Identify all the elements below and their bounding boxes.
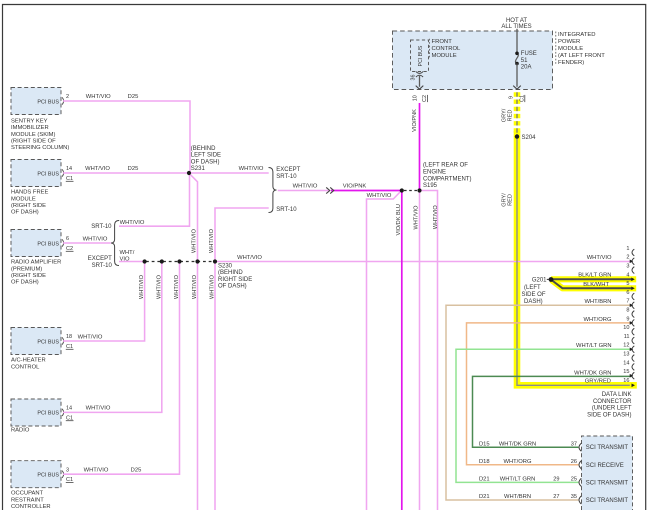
svg-text:D25: D25 — [128, 94, 139, 100]
svg-text:WHT/BRN: WHT/BRN — [504, 494, 531, 500]
yellow highlight: GRY/RED dashed segment below IPM — [514, 92, 521, 134]
svg-text:D18: D18 — [479, 459, 490, 465]
svg-text:SENTRY KEY: SENTRY KEY — [11, 118, 48, 124]
svg-text:12: 12 — [623, 343, 629, 349]
yellow highlight: BLK/LT GRN wire G201 to DLC pin 4 — [551, 276, 636, 282]
svg-text:COMPARTMENT): COMPARTMENT) — [423, 176, 471, 182]
svg-text:14: 14 — [66, 166, 72, 172]
svg-text:VIO: VIO — [120, 256, 130, 262]
svg-text:EXCEPT: EXCEPT — [88, 256, 112, 262]
svg-text:BLK/LT GRN: BLK/LT GRN — [578, 273, 611, 279]
svg-text:POWER: POWER — [558, 39, 580, 45]
svg-text:WHT/DK GRN: WHT/DK GRN — [574, 370, 611, 376]
svg-text:WHT/VIO: WHT/VIO — [239, 166, 264, 172]
svg-text:29: 29 — [553, 477, 559, 483]
svg-text:WHT/VIO: WHT/VIO — [85, 166, 110, 172]
bus splice dots and S230 — [143, 259, 147, 263]
svg-text:WHT/VIO: WHT/VIO — [139, 274, 145, 299]
module box: sentry key immobilizer module (SKIM) — [11, 88, 61, 115]
front control module (FCM) box inside IPM — [411, 40, 429, 72]
svg-text:51: 51 — [521, 58, 528, 64]
svg-text:(RIGHT SIDE: (RIGHT SIDE — [11, 273, 46, 279]
fuse 51 element — [515, 53, 518, 63]
svg-text:BLK/WHT: BLK/WHT — [583, 282, 609, 288]
PCM box (SCI module, bottom right) — [582, 436, 633, 510]
svg-text:10: 10 — [623, 325, 629, 331]
connector arc at radio amplifier (premium) — [62, 239, 63, 246]
svg-text:2: 2 — [66, 94, 69, 100]
svg-text:WHT/LT GRN: WHT/LT GRN — [576, 343, 612, 349]
svg-text:D15: D15 — [479, 441, 490, 447]
FCM internal connector symbol at pin 36 — [416, 72, 423, 74]
svg-text:WHT/VIO: WHT/VIO — [86, 406, 111, 412]
splice S231 — [187, 171, 191, 175]
wire: main WHT/VIO bus from S230 to DLC pin 2 — [215, 261, 632, 263]
wire: SKIM WHT/VIO from pin 2 to S231 — [63, 101, 190, 172]
svg-text:STEERING COLUMN): STEERING COLUMN) — [11, 145, 69, 151]
wire: WHT/VIO from S195 right dot over and down at x=437.5 — [420, 191, 438, 510]
svg-text:(BEHIND: (BEHIND — [218, 270, 243, 276]
wire: bus dot 1 drop to A/C-heater control pin 18 — [63, 262, 145, 342]
svg-text:WHT/VIO: WHT/VIO — [209, 228, 215, 253]
svg-text:3: 3 — [66, 467, 69, 473]
wire: right brace output WHT/VIO to inline connector — [278, 190, 330, 192]
svg-text:SCI RECEIVE: SCI RECEIVE — [586, 463, 624, 469]
svg-text:WHT/VIO: WHT/VIO — [293, 184, 318, 190]
svg-text:INTEGRATED: INTEGRATED — [558, 32, 596, 38]
svg-text:HANDS FREE: HANDS FREE — [11, 190, 48, 196]
svg-text:WHT/VIO: WHT/VIO — [367, 193, 392, 199]
wire: VIO/PNK from FCM pin 10 down to S195 — [419, 103, 421, 191]
svg-text:FRONT: FRONT — [432, 39, 453, 45]
svg-text:SIDE OF: SIDE OF — [522, 292, 546, 298]
svg-text:VIO/PNK: VIO/PNK — [412, 109, 418, 132]
svg-text:(BEHIND: (BEHIND — [191, 146, 216, 152]
svg-text:EXCEPT: EXCEPT — [276, 167, 300, 173]
svg-text:MODULE: MODULE — [11, 196, 36, 202]
svg-text:37: 37 — [571, 441, 577, 447]
svg-text:G201: G201 — [532, 277, 547, 283]
svg-text:WHT/VIO: WHT/VIO — [210, 274, 216, 299]
wire: radio amplifier WHT/VIO from pin 6 to left brace — [63, 242, 111, 244]
svg-text:9: 9 — [626, 316, 629, 322]
svg-text:16: 16 — [623, 378, 629, 384]
svg-text:FUSE: FUSE — [521, 51, 537, 57]
wire: battery feed into fuse 51 — [516, 29, 518, 54]
svg-text:WHT/VIO: WHT/VIO — [192, 228, 198, 253]
svg-text:S195: S195 — [423, 183, 438, 189]
module box: radio amplifier (premium) — [11, 230, 61, 257]
connector arc at occupant restraint controller — [62, 471, 63, 478]
svg-text:11: 11 — [624, 334, 630, 340]
splice S204 — [515, 134, 519, 138]
FCM label: FRONT CONTROL MODULE — [428, 39, 430, 58]
wire: WHT/VIO from S195 right dot down to page bottom — [419, 191, 421, 510]
svg-text:PCI BUS: PCI BUS — [418, 45, 424, 66]
svg-text:MODULE: MODULE — [558, 46, 583, 52]
svg-text:WHT/VIO: WHT/VIO — [84, 467, 109, 473]
wire: VIO/PNK from inline connector to S195 — [331, 190, 402, 192]
connector chevron at IPM bottom (FCM output, pin 10) — [416, 86, 424, 90]
svg-text:WHT/VIO: WHT/VIO — [433, 205, 439, 230]
svg-text:WHT/VIO: WHT/VIO — [86, 94, 111, 100]
IPM connector C1 label (rotated, underlined) — [519, 95, 525, 102]
svg-text:PCI BUS: PCI BUS — [37, 241, 59, 247]
svg-text:PCI BUS: PCI BUS — [37, 99, 59, 105]
wire: HANDS FREE WHT/VIO from pin 14 to S231 — [63, 172, 188, 174]
GRY/RED label lower (rotated) — [502, 193, 514, 207]
wire: S231 to right brace (EXCEPT SRT-10) — [190, 172, 269, 174]
integrated power module (IPM) box — [393, 31, 553, 90]
svg-text:OF DASH): OF DASH) — [218, 283, 247, 289]
svg-text:RED: RED — [508, 110, 514, 122]
svg-text:1: 1 — [626, 246, 629, 252]
svg-text:SRT-10: SRT-10 — [276, 174, 297, 180]
connector chevron at IPM bottom (fuse output, pin 9) — [513, 86, 521, 90]
svg-text:27: 27 — [553, 494, 559, 500]
svg-text:PCI BUS: PCI BUS — [37, 411, 59, 417]
svg-text:VIO/DK BLU: VIO/DK BLU — [396, 204, 402, 235]
svg-text:WHT/VIO: WHT/VIO — [156, 274, 162, 299]
GRY/RED dashed wire core below IPM — [516, 92, 518, 134]
svg-text:SCI TRANSMIT: SCI TRANSMIT — [586, 498, 629, 504]
svg-text:WHT/BRN: WHT/BRN — [584, 299, 611, 305]
svg-text:18: 18 — [66, 334, 72, 340]
wire: S195 branch diagonal to WHT/VIO drop at x=366.5 — [367, 192, 401, 510]
svg-text:8: 8 — [626, 308, 629, 314]
svg-text:7: 7 — [626, 299, 629, 305]
svg-text:RED: RED — [508, 194, 514, 206]
right brace merging EXCEPT SRT-10 / SRT-10 into one wire — [269, 168, 277, 213]
svg-text:WHT/DK GRN: WHT/DK GRN — [499, 441, 536, 447]
svg-text:SIDE OF DASH): SIDE OF DASH) — [587, 412, 631, 418]
BLK/LT GRN wire core G201 to DLC pin 4 — [551, 278, 632, 280]
svg-text:WHT/ORG: WHT/ORG — [583, 317, 612, 323]
svg-text:D21: D21 — [479, 494, 490, 500]
svg-text:SRT-10: SRT-10 — [92, 263, 113, 269]
svg-text:WHT/VIO: WHT/VIO — [120, 220, 145, 226]
svg-text:VIO/PNK: VIO/PNK — [343, 184, 367, 190]
wire: bus dot 3 drop to occupant restraint controller pin 3 — [63, 262, 180, 475]
connector arc at A/C-heater control — [62, 337, 63, 344]
svg-text:25: 25 — [571, 477, 577, 483]
svg-text:DASH): DASH) — [524, 299, 543, 305]
svg-text:20A: 20A — [521, 65, 532, 71]
svg-text:9: 9 — [508, 96, 514, 99]
wire: fuse 51 to IPM bottom edge — [516, 64, 518, 87]
wire: S231 diagonal jog down to bus dot 4 and on to page bottom — [191, 175, 198, 510]
svg-text:10: 10 — [412, 95, 418, 101]
svg-text:(RIGHT SIDE OF: (RIGHT SIDE OF — [11, 139, 56, 145]
wire: WHT/LT GRN DLC pin 12 to PCM pin 25 — [456, 349, 632, 482]
svg-text:6: 6 — [626, 290, 629, 296]
IPM label: INTEGRATED POWER MODULE (AT LEFT FRONT FENDER) — [555, 32, 557, 65]
svg-text:WHT/ORG: WHT/ORG — [503, 459, 532, 465]
svg-text:RESTRAINT: RESTRAINT — [11, 497, 44, 503]
svg-text:D21: D21 — [479, 477, 490, 483]
svg-text:S204: S204 — [522, 135, 537, 141]
svg-text:SCI TRANSMIT: SCI TRANSMIT — [586, 445, 629, 451]
svg-text:ENGINE: ENGINE — [423, 170, 446, 176]
svg-text:WHT/VIO: WHT/VIO — [413, 205, 419, 230]
svg-text:RADIO: RADIO — [11, 428, 30, 434]
svg-text:13: 13 — [623, 352, 629, 358]
svg-text:PCI BUS: PCI BUS — [37, 473, 59, 479]
svg-text:WHT/VIO: WHT/VIO — [192, 274, 198, 299]
splice S195 dots — [400, 188, 404, 192]
module box: A/C-heater control — [11, 328, 61, 355]
svg-text:CONTROL: CONTROL — [11, 364, 40, 370]
svg-text:LEFT SIDE: LEFT SIDE — [191, 153, 221, 159]
arrowheads at DLC wired pins — [630, 260, 634, 264]
svg-text:RADIO AMPLIFIER: RADIO AMPLIFIER — [11, 260, 61, 266]
wire: WHT/DK GRN DLC pin 15 to PCM pin 37 — [473, 376, 632, 447]
wire: WHT/BRN DLC pin 7 to PCM pin 35 — [446, 305, 632, 500]
svg-text:(LEFT: (LEFT — [524, 285, 541, 291]
svg-text:CONNECTOR: CONNECTOR — [593, 399, 632, 405]
wire: VIO/DK BLU from S195 down to page bottom — [401, 191, 403, 510]
svg-text:15: 15 — [623, 369, 629, 375]
svg-text:MODULE (SKIM): MODULE (SKIM) — [11, 132, 56, 138]
dashed segment between S195 dots — [404, 190, 418, 192]
svg-text:4: 4 — [626, 272, 629, 278]
wire: S230 vertical continuing to page bottom — [214, 262, 216, 510]
GRY/RED label upper (rotated) — [502, 108, 514, 122]
svg-text:ALL TIMES: ALL TIMES — [501, 24, 531, 30]
svg-text:2: 2 — [626, 255, 629, 261]
svg-text:(UNDER LEFT: (UNDER LEFT — [592, 406, 632, 412]
wire: S230 riser up and right to right brace (SRT-10 input) — [215, 208, 269, 262]
svg-text:D25: D25 — [131, 467, 142, 473]
svg-text:D25: D25 — [128, 166, 139, 172]
svg-text:WHT/VIO: WHT/VIO — [587, 255, 612, 261]
svg-text:MODULE: MODULE — [432, 53, 457, 59]
left brace at radio amplifier split (SRT-10 / EXCEPT SRT-10) — [111, 221, 119, 266]
svg-text:PCI BUS: PCI BUS — [37, 339, 59, 345]
connector arc at sentry key immobilizer module (SKIM) — [62, 97, 63, 104]
svg-text:36: 36 — [411, 75, 417, 81]
connector arc at radio — [62, 409, 63, 416]
svg-text:WHT/VIO: WHT/VIO — [174, 274, 180, 299]
svg-text:OF DASH): OF DASH) — [11, 280, 39, 286]
svg-text:DATA LINK: DATA LINK — [602, 392, 632, 398]
svg-text:FENDER): FENDER) — [558, 60, 584, 66]
yellow highlight: GRY/RED main run from S204 to DLC pin 16 — [517, 131, 637, 385]
ground splice G201 — [549, 277, 554, 282]
svg-text:WHT/LT GRN: WHT/LT GRN — [500, 477, 536, 483]
svg-text:PCI BUS: PCI BUS — [37, 171, 59, 177]
connector arc at hands free module — [62, 169, 63, 176]
svg-text:WHT/VIO: WHT/VIO — [83, 236, 108, 242]
wire: left brace lower branch (EXCEPT SRT-10) to bus dot 1 — [119, 261, 145, 263]
svg-text:14: 14 — [66, 406, 72, 412]
module box: hands free module — [11, 160, 61, 187]
module box: radio — [11, 399, 61, 426]
svg-text:OF DASH): OF DASH) — [191, 159, 220, 165]
svg-text:IMMOBILIZER: IMMOBILIZER — [11, 125, 49, 131]
svg-text:WHT/VIO: WHT/VIO — [237, 255, 262, 261]
svg-text:(LEFT REAR OF: (LEFT REAR OF — [423, 163, 468, 169]
wire: WHT/ORG DLC pin 9 to PCM pin 26 — [467, 323, 632, 465]
yellow highlight: BLK/WHT wire G201 to DLC pin 5 — [552, 280, 637, 288]
svg-text:5: 5 — [626, 281, 629, 287]
svg-text:S230: S230 — [218, 264, 233, 270]
svg-text:OCCUPANT: OCCUPANT — [11, 491, 44, 497]
svg-text:CONTROL: CONTROL — [432, 46, 462, 52]
svg-text:CONTROLLER: CONTROLLER — [11, 504, 51, 510]
svg-text:GRY/RED: GRY/RED — [585, 379, 611, 385]
svg-text:A/C-HEATER: A/C-HEATER — [11, 358, 46, 364]
wire: FCM PCI BUS pin 36 to IPM bottom edge — [419, 76, 421, 87]
inline connector symbol (male/female) on WHT/VIO - VIO/PNK wire — [326, 187, 330, 193]
svg-text:S231: S231 — [191, 166, 206, 172]
wire: S231 down and left to radio amplifier brace (SRT-10 branch) — [119, 173, 190, 226]
svg-text:WHT/VIO: WHT/VIO — [78, 334, 103, 340]
IPM connector C2 label (rotated, underlined) — [422, 95, 428, 102]
svg-text:(AT LEFT FRONT: (AT LEFT FRONT — [558, 53, 605, 59]
svg-text:SRT-10: SRT-10 — [91, 224, 112, 230]
svg-text:RIGHT SIDE: RIGHT SIDE — [218, 277, 252, 283]
svg-text:SCI TRANSMIT: SCI TRANSMIT — [586, 480, 629, 486]
svg-text:3: 3 — [626, 264, 629, 270]
svg-text:SRT-10: SRT-10 — [276, 207, 297, 213]
svg-text:35: 35 — [571, 494, 577, 500]
wire: bus dot 2 drop to radio pin 14 — [63, 262, 162, 413]
svg-text:(PREMIUM): (PREMIUM) — [11, 266, 42, 272]
svg-text:(RIGHT SIDE: (RIGHT SIDE — [11, 203, 46, 209]
module box: occupant restraint controller — [11, 461, 61, 488]
svg-text:WHT/: WHT/ — [120, 250, 135, 256]
BLK/WHT wire core G201 to DLC pin 5 — [552, 280, 632, 288]
svg-text:26: 26 — [571, 459, 577, 465]
svg-text:14: 14 — [623, 360, 629, 366]
GRY/RED wire core from S204 to DLC pin 16 — [517, 134, 630, 385]
svg-text:6: 6 — [66, 236, 69, 242]
svg-text:OF DASH): OF DASH) — [11, 210, 39, 216]
dashed bus segments between splice dots — [146, 261, 214, 263]
